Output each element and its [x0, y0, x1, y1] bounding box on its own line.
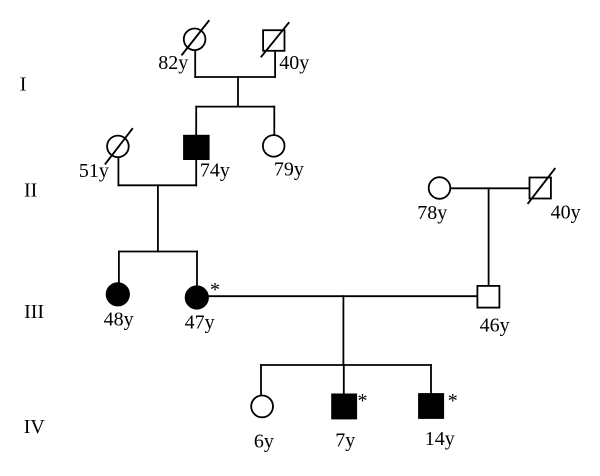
slash over II-1	[105, 128, 133, 164]
svg-text:40y: 40y	[279, 52, 309, 74]
slash over I-1	[182, 20, 210, 55]
wire stem below I-2	[274, 51, 276, 78]
wire couple line III-2 to III-3	[208, 295, 478, 297]
slash over II-5	[528, 168, 556, 204]
slash over I-2	[261, 22, 289, 57]
wire descent from couple II right to III-3	[488, 187, 490, 286]
wire descent from couple III	[342, 295, 344, 366]
wire drop to II-3	[273, 106, 275, 135]
svg-text:III: III	[24, 301, 44, 323]
individual IV-1 female 6y (circle)	[251, 396, 273, 418]
svg-text:82y: 82y	[158, 52, 188, 74]
svg-text:*: *	[210, 279, 220, 301]
wire couple line II-4 to II-5	[451, 187, 530, 189]
wire sibship line generation III	[118, 251, 198, 253]
wire drop to II-2	[195, 106, 197, 137]
individual I-2 deceased male 40y (square)	[263, 30, 284, 51]
wire couple line I-1 to I-2	[194, 76, 276, 78]
individual IV-2 affected male 7y (filled square)	[332, 394, 356, 418]
svg-text:51y: 51y	[79, 160, 109, 182]
wire sibship line generation IV	[260, 364, 432, 366]
wire couple line II-1 to II-2	[118, 184, 198, 186]
svg-text:74y: 74y	[200, 160, 230, 182]
wire descent from couple I	[237, 76, 239, 107]
wire stem below II-2	[195, 159, 197, 186]
wire descent from couple II	[157, 184, 159, 252]
svg-text:79y: 79y	[274, 158, 304, 180]
svg-text:*: *	[448, 390, 458, 412]
svg-text:40y: 40y	[551, 202, 581, 224]
individual III-3 male 46y (square)	[477, 286, 499, 308]
svg-text:14y: 14y	[425, 428, 455, 450]
wire drop to IV-1	[260, 364, 262, 395]
individual II-3 female 79y (circle)	[263, 135, 285, 157]
individual II-2 affected male 74y (filled square)	[184, 136, 209, 159]
individual III-2 affected female 47y (filled circle)	[186, 286, 208, 308]
svg-text:6y: 6y	[254, 430, 274, 452]
individual II-4 female 78y (circle)	[429, 177, 451, 199]
svg-text:78y: 78y	[417, 202, 447, 224]
individual III-1 affected female 48y (filled circle)	[107, 283, 129, 305]
wire stem below II-1	[117, 158, 119, 187]
svg-text:II: II	[24, 180, 37, 202]
wire drop to III-2	[196, 251, 198, 286]
wire drop to IV-2	[343, 364, 345, 395]
svg-text:IV: IV	[24, 416, 46, 438]
wire drop to III-1	[118, 251, 120, 283]
svg-text:46y: 46y	[480, 314, 510, 336]
svg-text:47y: 47y	[185, 312, 215, 334]
svg-text:*: *	[358, 390, 368, 412]
wire stem below I-1	[194, 50, 196, 78]
svg-text:7y: 7y	[335, 429, 355, 451]
wire drop to IV-3	[430, 364, 432, 395]
svg-text:I: I	[20, 74, 27, 96]
svg-text:48y: 48y	[104, 309, 134, 331]
wire sibship line generation II	[196, 106, 274, 108]
individual II-1 deceased female 51y (circle)	[107, 136, 129, 158]
individual II-5 deceased male 40y (square)	[530, 178, 551, 199]
individual IV-3 affected male 14y (filled square)	[419, 394, 443, 418]
individual I-1 deceased female 82y (circle)	[184, 29, 206, 51]
